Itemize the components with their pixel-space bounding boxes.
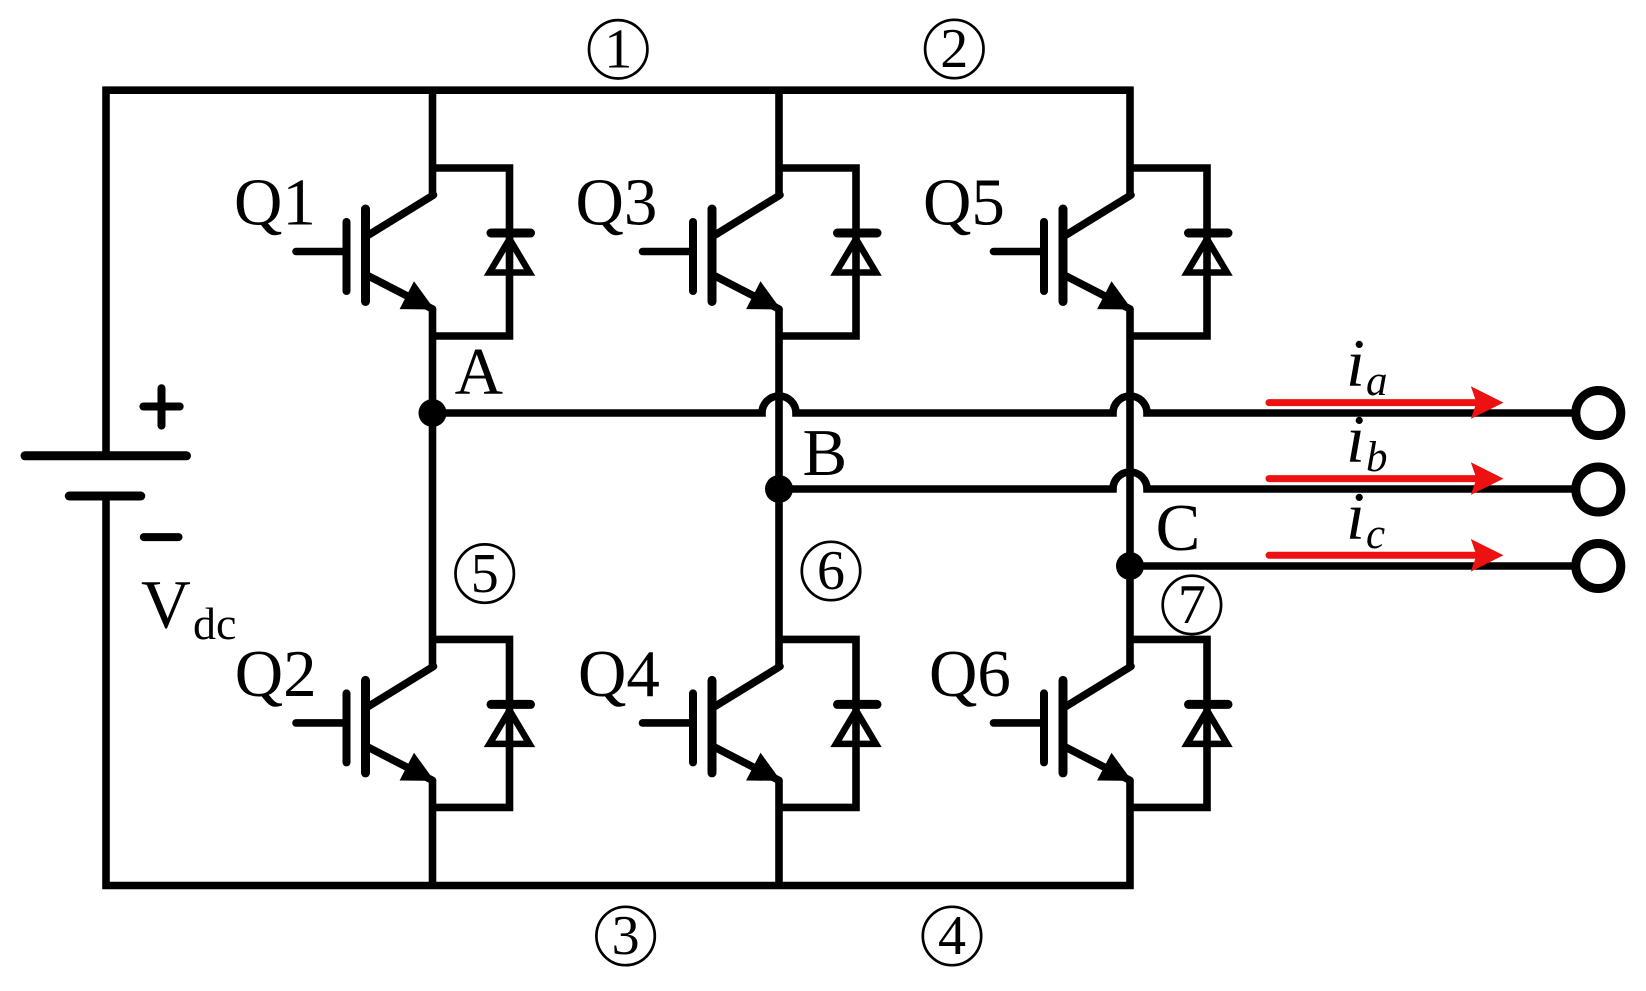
- wire leg A lower (emitter of Q2 to bottom bus): [429, 780, 437, 889]
- svg-text:B: B: [803, 416, 848, 490]
- svg-text:7: 7: [1178, 574, 1206, 636]
- svg-text:i: i: [1346, 478, 1365, 554]
- transistor Q6 (IGBT): [994, 666, 1133, 781]
- segment number 3: [596, 905, 654, 967]
- antiparallel diode of Q4: [776, 639, 878, 807]
- svg-text:Q1: Q1: [234, 166, 316, 240]
- wire phase C output line: [1130, 562, 1572, 570]
- wire leg C upper: [1126, 87, 1134, 196]
- wire leg B lower: [775, 780, 783, 889]
- wire left vertical from top bus to battery + plate: [102, 87, 110, 456]
- svg-text:3: 3: [612, 905, 640, 967]
- svg-text:i: i: [1346, 401, 1365, 477]
- transistor Q4 (IGBT): [643, 666, 782, 781]
- wire bottom DC bus: [103, 882, 1134, 890]
- segment number 7: [1163, 574, 1221, 636]
- segment number 2: [925, 18, 983, 80]
- terminal phase c: [1576, 544, 1621, 589]
- current arrow ib: [1269, 462, 1504, 495]
- wire leg C middle: [1126, 309, 1134, 668]
- minus sign marking: [144, 533, 179, 541]
- svg-text:6: 6: [817, 540, 845, 602]
- svg-text:Q3: Q3: [576, 166, 658, 240]
- transistor Q5 (IGBT): [994, 195, 1133, 310]
- wire left vertical from battery - plate to bottom bus: [102, 496, 110, 889]
- battery Vdc positive plate: [25, 451, 187, 460]
- node C junction dot: [1116, 552, 1144, 580]
- wire leg A middle (emitter Q1 to collector Q2 through node A): [429, 309, 437, 668]
- svg-text:Q5: Q5: [923, 166, 1005, 240]
- svg-text:2: 2: [940, 18, 968, 80]
- battery Vdc negative plate: [69, 492, 141, 501]
- svg-text:c: c: [1366, 511, 1385, 558]
- transistor Q2 (IGBT): [296, 666, 435, 781]
- antiparallel diode of Q6: [1127, 639, 1229, 807]
- wire top DC bus: [103, 86, 1134, 94]
- antiparallel diode of Q1: [429, 168, 531, 336]
- svg-text:Q4: Q4: [578, 637, 660, 711]
- node A junction dot: [419, 399, 447, 427]
- svg-text:5: 5: [471, 543, 499, 605]
- svg-text:Q2: Q2: [235, 637, 317, 711]
- svg-text:C: C: [1156, 491, 1201, 565]
- svg-text:a: a: [1366, 358, 1388, 405]
- svg-text:4: 4: [938, 905, 966, 967]
- antiparallel diode of Q5: [1127, 168, 1229, 336]
- terminal phase b: [1576, 467, 1621, 512]
- wire phase B output line with hop over leg C: [779, 472, 1572, 489]
- terminal phase a: [1576, 391, 1621, 436]
- plus sign marking: [143, 388, 179, 425]
- node B junction dot: [765, 475, 793, 503]
- wire leg C lower: [1126, 780, 1134, 889]
- wire leg B middle: [775, 309, 783, 668]
- svg-text:b: b: [1366, 434, 1388, 481]
- segment number 6: [802, 540, 860, 602]
- svg-text:A: A: [455, 335, 503, 409]
- segment number 4: [923, 905, 981, 967]
- wire phase A output line with hops over legs B and C: [433, 396, 1573, 413]
- svg-text:V: V: [141, 567, 191, 643]
- current arrow ic: [1269, 539, 1504, 572]
- wire leg A upper (collector of Q1): [429, 87, 437, 196]
- segment number 1: [589, 19, 647, 81]
- transistor Q3 (IGBT): [643, 195, 782, 310]
- current arrow ia: [1269, 386, 1504, 419]
- transistor Q1 (IGBT): [296, 195, 435, 310]
- wire leg B upper: [775, 87, 783, 196]
- svg-text:Q6: Q6: [929, 637, 1011, 711]
- antiparallel diode of Q3: [776, 168, 878, 336]
- svg-text:dc: dc: [193, 598, 236, 649]
- svg-text:1: 1: [604, 19, 632, 81]
- svg-text:i: i: [1346, 325, 1365, 401]
- antiparallel diode of Q2: [429, 639, 531, 807]
- segment number 5: [456, 543, 514, 605]
